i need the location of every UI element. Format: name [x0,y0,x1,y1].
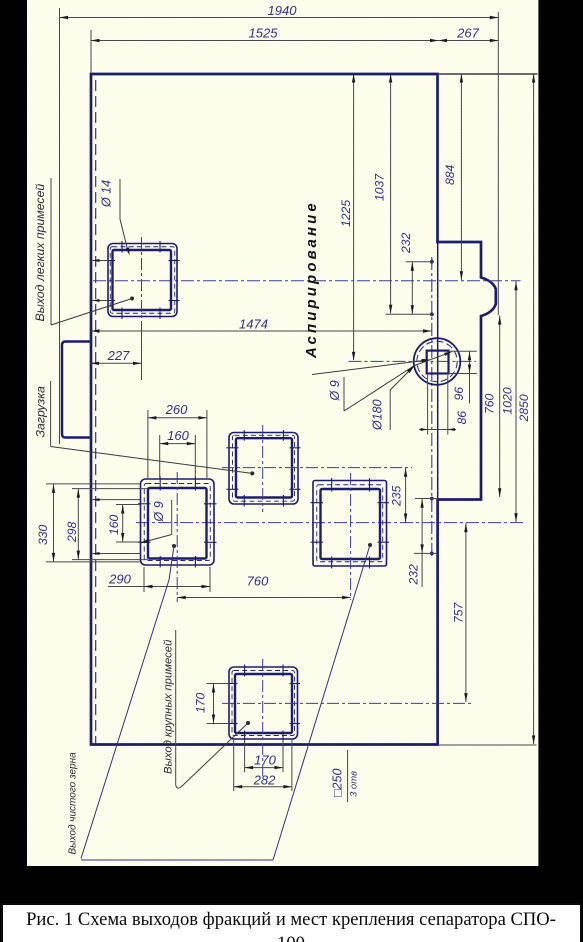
aspiration square opening [427,351,449,374]
ref line notch bottom [386,313,435,315]
dimension 282 [234,773,292,789]
dimension 267 [439,26,499,43]
flange C outlet square [138,477,217,568]
flange C-D horizontal centerline long [136,522,523,524]
298 extension bottom [72,559,148,561]
svg-text:170: 170 [254,753,276,768]
svg-text:□250: □250 [331,769,345,797]
body bottom extension line [438,744,537,746]
svg-text:260: 260 [165,402,188,417]
ref line below step [414,552,438,554]
dimension 2850 [517,74,535,744]
caption box [2,904,581,942]
flange A left stub lower [93,299,109,302]
flange C left stub upper [93,498,141,501]
leader to flange B [51,447,252,474]
svg-text:232: 232 [399,232,413,254]
dimension 96 [452,351,471,403]
leader to flange D [273,545,370,860]
dimension 1037 [373,74,393,313]
svg-text:Выход легких примесей: Выход легких примесей [33,184,47,322]
right extension line of 1940/267 [497,12,499,315]
axis reference dot notch [430,312,434,316]
dimension 884 [443,74,463,280]
svg-text:290: 290 [108,572,131,587]
dimension 86 [419,411,469,431]
flange D vertical centerline [350,473,352,600]
330 extension bottom [46,561,141,563]
svg-text:232: 232 [407,564,421,586]
170v extension top [207,683,230,685]
svg-text:100: 100 [277,933,305,942]
dimension 1225 [339,74,355,360]
170v extension bottom [207,723,230,725]
svg-text:884: 884 [443,164,457,185]
svg-text:Ø180: Ø180 [371,399,385,431]
svg-text:1940: 1940 [268,3,298,18]
leader to flange A [51,299,132,326]
svg-text:760: 760 [247,574,269,589]
svg-text:Загрузка: Загрузка [34,386,48,438]
282 extension left [233,740,235,791]
svg-text:3 отв: 3 отв [349,771,360,797]
label square 250 3 holes [331,750,360,802]
dimension 290 [108,572,210,589]
flange C leader dot [172,544,176,548]
step extension line left [415,498,438,500]
dimension 330 [36,484,55,562]
290 extension right [209,567,211,592]
flange A vertical centerline [141,237,143,380]
svg-text:298: 298 [65,521,79,543]
282 extension right [291,740,293,791]
svg-text:Выход чистого зерна: Выход чистого зерна [68,752,79,855]
svg-text:Ø 9: Ø 9 [328,380,342,401]
label diameter 180 [371,390,391,431]
160h extension right [194,435,196,478]
leader baseline bottom [81,859,273,861]
svg-text:1474: 1474 [239,317,268,332]
leader diameter 14 [120,219,131,256]
svg-text:757: 757 [452,601,466,623]
dimension 760 vertical [483,316,502,498]
axis reference dot step [430,497,434,501]
flange C left stub lower [93,552,141,555]
flange D outlet square [311,478,390,569]
leader to flange C [81,546,174,859]
dimension 170 below E [245,753,283,770]
aspiration vertical axis centerline [431,257,433,556]
flange B vertical centerline [262,425,264,512]
flange E vertical centerline [262,659,264,777]
flange A leader dot [130,297,134,301]
svg-text:235: 235 [390,485,404,507]
flange E outlet square [227,665,301,742]
leader diameter 9 flange C [140,535,172,545]
leader diameter 9 aspiration [344,350,453,411]
svg-text:86: 86 [455,411,469,425]
caption text line 1 [26,909,556,930]
170h extension right [282,740,284,772]
svg-text:1020: 1020 [501,387,515,414]
dimension 757 [452,523,468,702]
dimension 160 left [107,505,124,543]
aspiration port outer circle [414,338,461,385]
top reference line right of body [438,73,538,75]
flange A left stub upper [93,259,109,262]
298 extension top [72,488,148,490]
label diameter 9 flange C [152,500,172,535]
loading chute protrusion [62,342,91,438]
inner wall line through aspiration port [437,243,439,499]
svg-text:760: 760 [483,393,497,414]
svg-text:282: 282 [253,773,276,788]
svg-text:Ø 9: Ø 9 [152,501,166,522]
svg-text:Ø 14: Ø 14 [100,180,114,208]
svg-text:Выход крупных примесей: Выход крупных примесей [163,639,175,774]
330 extension top [46,483,141,485]
svg-text:1525: 1525 [249,26,279,41]
dimension 160 above C [160,428,196,445]
dimension 1474 [91,317,432,333]
flange B leader dot [250,471,254,475]
dimension 260 [148,402,207,420]
160 extension bottom [116,541,141,543]
flange E horizontal centerline [222,702,474,704]
aspiration circle horizontal centerline [349,360,477,362]
label vyhod krupnyh primesey [163,630,176,785]
svg-text:1225: 1225 [339,200,353,227]
svg-text:267: 267 [456,26,479,41]
dimension 760 horizontal [177,574,350,600]
svg-text:Рис. 1 Схема выходов фракций и: Рис. 1 Схема выходов фракций и мест креп… [26,909,556,930]
svg-text:330: 330 [36,524,50,545]
290 extension left [143,567,145,592]
dimension 232 lower [407,499,424,588]
86 extension right [447,375,449,435]
svg-text:170: 170 [194,692,208,713]
dimension 235 [390,468,408,523]
160h extension left [159,435,161,478]
86 extension left [427,375,429,435]
left extension line of 1940 [59,8,61,444]
caption text line 2 [277,933,305,942]
leader to flange E [176,723,248,788]
aspiration bolt circle dashed [417,341,457,381]
label diameter 9 aspiration [328,377,344,411]
ref line notch top [406,261,434,263]
flange B horizontal centerline [222,467,412,469]
label vyhod legkih primesey [33,178,51,325]
flange B loading square [227,430,301,507]
axis reference dot lower [430,552,434,556]
260 extension right [206,410,208,478]
flange C vertical centerline [176,472,178,602]
flange E leader dot [246,721,250,725]
black band above caption [0,866,583,904]
flange D leader dot [368,543,372,547]
dimension 170 left of E [194,684,216,724]
axis reference dot upper [430,260,434,264]
label zagruzka [34,381,51,447]
dimension 227 [91,348,142,365]
leader diameter 180 [390,364,416,390]
aspiration square bottom extension [449,373,477,375]
dimension 298 [65,489,80,560]
svg-text:Аспирирование: Аспирирование [303,200,320,359]
dimension 1525 [91,26,439,74]
170h extension left [244,740,246,772]
leader aspirirovanie [312,358,431,375]
aspiration square top extension [449,350,477,352]
svg-text:160: 160 [107,514,121,535]
dimension 1020 [501,281,518,522]
260 extension left [147,410,149,478]
dimension 232 upper [399,232,414,314]
label aspirirovanie [303,200,320,359]
svg-text:2850: 2850 [517,394,531,422]
label diameter 14 [100,179,121,219]
dimension 1940 [60,3,499,19]
flange A outlet square [106,241,180,319]
label vyhod chistogo zerna [68,752,79,855]
vertical dashed axis near left edge [95,80,97,744]
flange A horizontal centerline long [93,280,521,282]
160 extension top [116,504,141,506]
svg-text:227: 227 [107,348,130,363]
svg-text:96: 96 [452,387,466,401]
svg-text:1037: 1037 [373,173,387,201]
svg-text:160: 160 [167,428,189,443]
separator body outline [91,74,496,745]
